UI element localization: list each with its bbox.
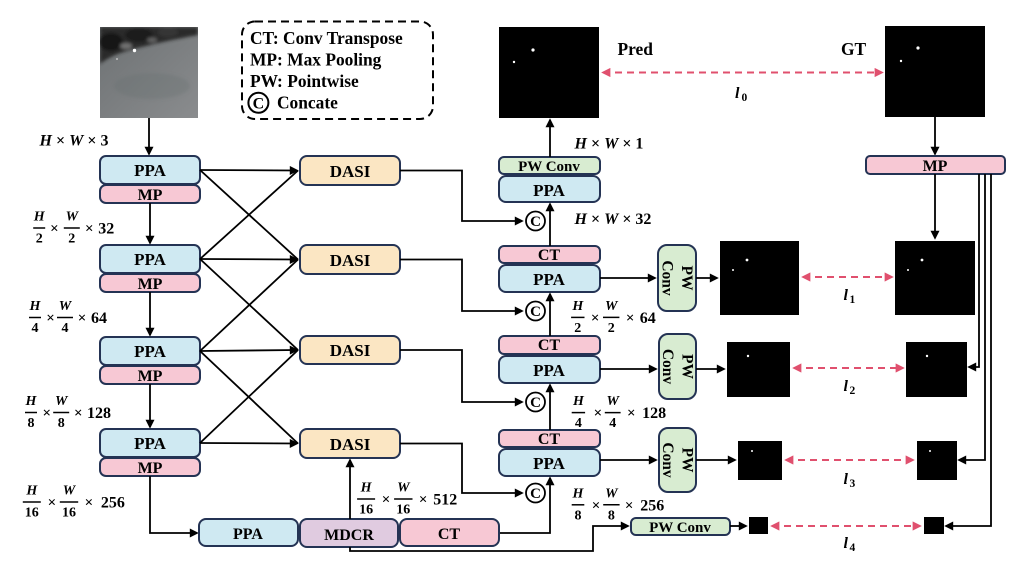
svg-text:2: 2 [850,385,856,397]
svg-text:×: × [74,406,83,422]
svg-text:3: 3 [850,478,856,490]
svg-text:128: 128 [87,405,111,422]
svg-text:16: 16 [359,503,373,518]
svg-text:16: 16 [25,506,39,521]
svg-text:C: C [530,395,541,411]
svg-text:H: H [360,481,373,496]
svg-text:PPA: PPA [533,270,566,289]
svg-text:4: 4 [609,416,616,431]
svg-text:CT: CT [538,337,561,354]
svg-text:C: C [530,486,541,502]
svg-text:W: W [66,210,80,225]
svg-text:16: 16 [62,506,76,521]
svg-text:2: 2 [608,321,615,336]
svg-text:×: × [419,492,428,508]
svg-text:×: × [591,310,600,326]
svg-text:H × W × 1: H × W × 1 [574,136,644,153]
svg-text:DASI: DASI [330,251,371,270]
svg-text:H: H [571,299,584,314]
svg-text:CT: CT [438,526,461,543]
svg-text:GT: GT [841,39,867,59]
svg-text:MDCR: MDCR [324,527,374,544]
svg-text:8: 8 [28,416,35,431]
svg-text:64: 64 [640,310,656,327]
svg-text:CT: CT [538,431,561,448]
svg-text:16: 16 [396,503,410,518]
svg-text:PW Conv: PW Conv [649,520,711,536]
svg-text:MP: MP [923,158,948,175]
svg-text:DASI: DASI [330,341,371,360]
svg-text:MP: Max Pooling: MP: Max Pooling [250,50,382,70]
svg-text:PPA: PPA [134,250,167,269]
svg-text:×: × [627,406,636,422]
svg-text:W: W [63,484,77,499]
svg-text:DASI: DASI [330,162,371,181]
svg-text:1: 1 [850,294,856,306]
svg-text:MP: MP [138,460,163,477]
svg-text:512: 512 [433,492,457,509]
svg-text:C: C [253,96,265,113]
svg-text:H: H [29,299,42,314]
svg-text:2: 2 [36,232,43,247]
svg-text:W: W [55,394,69,409]
svg-text:l: l [844,378,849,395]
svg-text:8: 8 [58,416,65,431]
svg-text:8: 8 [575,508,582,523]
svg-text:2: 2 [574,321,581,336]
svg-text:CT: Conv Transpose: CT: Conv Transpose [250,28,403,48]
svg-text:4: 4 [850,542,856,554]
svg-text:4: 4 [32,321,39,336]
svg-text:H: H [572,486,585,501]
svg-text:H × W × 3: H × W × 3 [39,133,109,150]
svg-text:MP: MP [138,368,163,385]
svg-text:×: × [594,406,603,422]
svg-text:×: × [78,311,87,327]
svg-text:256: 256 [101,495,125,512]
svg-text:Concate: Concate [277,93,338,113]
svg-text:l: l [844,287,849,304]
svg-text:×: × [46,311,55,327]
svg-text:×: × [592,498,601,514]
svg-text:×: × [48,495,57,511]
svg-text:0: 0 [742,92,748,104]
svg-text:MP: MP [138,187,163,204]
svg-text:×: × [626,310,635,326]
svg-text:64: 64 [91,310,107,327]
svg-text:DASI: DASI [330,435,371,454]
svg-text:l: l [844,471,849,488]
svg-text:W: W [605,486,619,501]
svg-text:8: 8 [608,508,615,523]
svg-text:C: C [530,214,541,230]
svg-text:W: W [605,299,619,314]
svg-text:128: 128 [642,405,666,422]
svg-text:32: 32 [98,221,114,238]
svg-text:×: × [85,495,94,511]
svg-text:C: C [530,304,541,320]
svg-text:PPA: PPA [533,361,566,380]
svg-text:l: l [735,85,740,102]
svg-text:PPA: PPA [233,526,263,543]
svg-text:×: × [85,221,94,237]
svg-text:PW Conv: PW Conv [518,159,580,175]
svg-text:PPA: PPA [134,434,167,453]
svg-text:PPA: PPA [533,454,566,473]
svg-text:256: 256 [640,497,664,514]
svg-text:×: × [43,406,52,422]
svg-text:H: H [25,394,38,409]
svg-text:2: 2 [68,232,75,247]
svg-text:4: 4 [575,416,582,431]
svg-text:PPA: PPA [134,342,167,361]
svg-text:CT: CT [538,247,561,264]
svg-text:4: 4 [62,321,69,336]
svg-text:×: × [382,492,391,508]
svg-text:MP: MP [138,276,163,293]
svg-text:l: l [844,535,849,552]
svg-text:PPA: PPA [134,161,167,180]
svg-text:×: × [625,498,634,514]
svg-text:×: × [50,221,59,237]
svg-text:H: H [25,484,38,499]
svg-text:H: H [572,394,585,409]
svg-text:W: W [397,481,411,496]
svg-text:PPA: PPA [533,181,566,200]
svg-text:W: W [59,299,73,314]
svg-text:H × W × 32: H × W × 32 [574,211,652,228]
svg-text:W: W [606,394,620,409]
svg-text:H: H [33,210,46,225]
svg-text:PW: Pointwise: PW: Pointwise [250,71,359,91]
svg-text:Pred: Pred [618,39,654,59]
